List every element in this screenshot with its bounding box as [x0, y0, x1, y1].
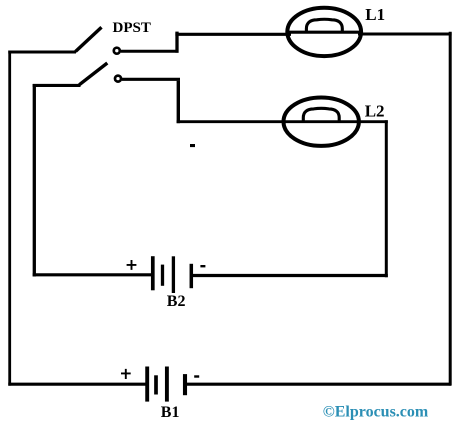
wire: horizontal to switch blade 2	[33, 84, 81, 87]
wire: circle1 to right	[121, 50, 179, 53]
wire: vertical up to L1 level	[175, 32, 178, 53]
lamp L1 ellipse	[287, 8, 361, 56]
wire: top-left horizontal to switch blade 1	[8, 51, 76, 54]
wire: vertical down to L2 level	[177, 81, 180, 123]
wire: lamp L1 to right vertical	[358, 33, 452, 36]
lamp L1 filament bump	[306, 19, 342, 32]
label + (B1)	[121, 369, 131, 379]
wire: inner left vertical (B2 + to switch pole 2)	[33, 84, 36, 277]
label + (B2)	[127, 260, 137, 270]
svg-text:©Elprocus.com: ©Elprocus.com	[323, 404, 429, 421]
switch terminal circle 1	[114, 48, 120, 54]
stray minus mark	[190, 144, 195, 147]
wire: L1 lamp interior line	[288, 31, 362, 34]
wire: right vertical of B2 loop	[385, 120, 388, 277]
battery B1 plate 4 (short, -)	[183, 374, 187, 395]
lamp L2 ellipse	[284, 98, 359, 146]
wire: B2 bottom horizontal right part	[193, 274, 388, 277]
battery B1 plate 3 (tall)	[165, 367, 169, 402]
battery B2 plate 3 (tall)	[172, 256, 175, 293]
label - (B2)	[200, 265, 205, 267]
wire: switch to lamp L1 horizontal	[175, 33, 291, 36]
switch blade 2 (DPST pole 2, open)	[79, 63, 107, 85]
svg-text:L1: L1	[365, 5, 385, 24]
lamp L2 filament bump	[303, 108, 339, 121]
battery B2 plate 1 (tall, +)	[151, 256, 155, 290]
battery B2 plate 2 (short)	[161, 265, 164, 286]
wire: circle2 to right	[122, 78, 180, 81]
switch blade 1 (DPST pole 1, open)	[76, 27, 102, 51]
svg-text:B1: B1	[161, 404, 180, 421]
wire: right outer vertical	[449, 32, 452, 386]
wire: bottom horizontal right of B1	[187, 383, 451, 386]
wire: L2 horizontal line (through lamp)	[177, 120, 388, 123]
wire: outer left vertical (B1 + to switch pole 1)	[8, 51, 11, 386]
label - (B1)	[194, 375, 199, 377]
battery B2 plate 4 (short, -)	[190, 264, 194, 288]
svg-text:DPST: DPST	[113, 20, 151, 36]
svg-text:L2: L2	[365, 101, 385, 120]
battery B1 plate 2 (short)	[154, 375, 158, 394]
switch terminal circle 2	[115, 76, 121, 82]
wire: B2 bottom horizontal left part	[33, 273, 151, 276]
battery B1 plate 1 (tall, +)	[145, 367, 149, 402]
wire: bottom horizontal left of B1	[8, 383, 147, 386]
svg-text:B2: B2	[167, 293, 186, 310]
